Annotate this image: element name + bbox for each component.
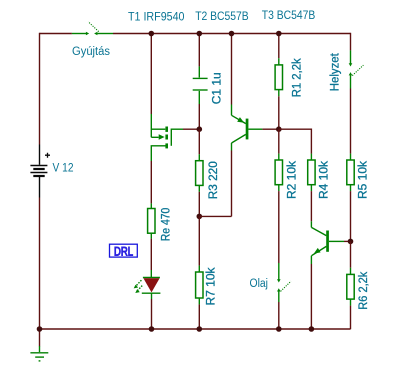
node bottom rail dot T3 [309,326,315,332]
node bottom rail dot LED [149,326,155,332]
label DRL [110,244,138,258]
wire left rail upper [39,33,41,145]
wire T2 collector down [231,151,233,217]
node bottom rail dot Olaj [276,326,282,332]
node top rail dot R1 [276,31,282,37]
node top rail dot T2 [229,31,235,37]
svg-text:T2 BC557B: T2 BC557B [195,11,249,23]
resistor R4 10k [308,154,315,192]
svg-text:Olaj: Olaj [250,278,269,290]
wire LED cathode to bottom rail [151,299,153,329]
wire right column top / Helyzet feed [350,33,352,51]
svg-text:R7 10k: R7 10k [206,267,218,305]
wire R1 column top [278,34,280,59]
wire LED anode stub [150,270,152,277]
wire R2 to Olaj switch [278,191,280,263]
resistor Re 470 [148,203,155,238]
node bottom rail dot ground [37,326,43,332]
wire R7 to bottom rail [198,304,200,329]
wire T2 collector to node B [199,215,231,217]
switch SW1 Gyujtas [72,22,113,36]
wire T2 base to node C [262,128,278,130]
node B dot [197,214,203,220]
wire node C to R4 corner [279,129,312,153]
node top rail dot T1 [149,31,155,37]
wire bottom rail [40,328,351,330]
node D dot [348,239,354,245]
svg-text:Helyzet: Helyzet [330,52,342,91]
resistor R5 10k [347,154,354,192]
wire top rail right segment [113,33,351,35]
wire Olaj to bottom rail [278,302,280,329]
wire T1 source column [150,34,152,115]
wire T3 emitter to bottom rail [310,264,312,329]
wire R5 to node D [350,191,352,241]
wire R3 to node B [198,192,200,217]
svg-text:C1 1u: C1 1u [212,72,224,104]
wire R6 to bottom rail [350,306,352,330]
transistor T3 BC547B [311,221,344,264]
wire ground drop [39,329,41,346]
switch SW2 Olaj [277,263,291,302]
wire top rail left segment [40,33,72,35]
mosfet T1 IRF9540 [151,114,183,161]
svg-text:T3 BC547B: T3 BC547B [262,10,316,22]
wire C1 column top [198,34,200,67]
wire Re to LED [150,239,152,270]
wire T3 base to node D [344,240,351,242]
transistor T2 BC557B [232,105,263,151]
resistor R7 10k [196,266,203,305]
svg-text:R1 2,2k: R1 2,2k [291,58,303,97]
svg-text:R2 10k: R2 10k [287,161,299,199]
svg-text:R6 2,2k: R6 2,2k [358,271,370,309]
wire T1 drain down [150,161,152,203]
wire left rail lower [39,198,41,330]
node bottom rail dot R7 [197,326,203,332]
node top rail dot C1 [197,31,203,37]
wire Helyzet to R5 [350,89,352,154]
svg-text:Gyújtás: Gyújtás [72,46,110,58]
wire C1 to node A [198,104,200,129]
svg-text:R4 10k: R4 10k [319,161,331,199]
wire node A down to R3 [198,129,200,154]
resistor R6 2,2k [347,268,354,306]
resistor R2 10k [275,154,282,192]
svg-text:V 12: V 12 [53,162,74,174]
svg-text:T1 IRF9540: T1 IRF9540 [128,11,185,23]
LED D1 [134,278,161,300]
wire R4 column [310,153,312,155]
switch SW3 Helyzet [349,50,364,88]
wire node B to R7 [198,216,200,265]
wire T1 gate to node [183,128,199,130]
wire node D to R6 [350,241,352,267]
node A dot [197,126,203,132]
svg-text:R5 10k: R5 10k [358,161,370,199]
svg-text:Re 470: Re 470 [161,208,173,242]
node C dot [276,126,282,132]
wire R1 to node C [278,96,280,129]
wire T2 emitter column [231,34,233,105]
wire node C down to R2 [278,129,280,153]
ground [30,346,48,361]
battery V1 [30,145,50,198]
resistor R3 220 [196,154,203,192]
wire R4 to T3 collector [310,191,312,221]
resistor R1 2,2k [275,58,282,96]
svg-text:DRL: DRL [114,246,133,258]
capacitor C1 1u [193,66,208,104]
svg-text:R3 220: R3 220 [208,161,220,199]
